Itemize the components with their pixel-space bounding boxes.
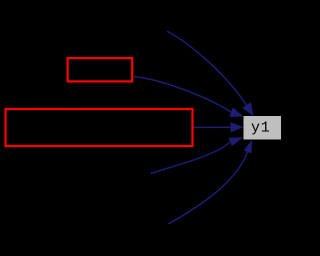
node N3 (large red box, caller) xyxy=(6,109,193,146)
arrowhead E3 xyxy=(231,122,244,132)
edge E5 (bottom curve into y1 bottom edge) xyxy=(169,152,248,224)
arrowhead E4 xyxy=(229,137,244,146)
edge E3 (horizontal from large red box into y1 left edge) xyxy=(194,126,231,128)
edge E4 (lower diagonal into y1 left bottom corner) xyxy=(151,142,231,174)
arrowhead E5 xyxy=(244,140,253,154)
node y1 (gray box) xyxy=(244,116,282,140)
edge E1 (top curve into y1 top edge) xyxy=(167,31,246,105)
arrowhead E2 xyxy=(229,107,243,117)
edge E2 (from small red box into y1 left top corner) xyxy=(134,77,231,113)
node N2 (small red box, caller) xyxy=(68,58,133,81)
arrowhead E1 xyxy=(242,102,253,116)
svg-text:y1: y1 xyxy=(251,120,271,137)
